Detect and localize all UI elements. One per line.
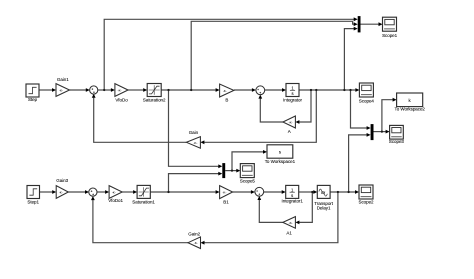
svg-text:s: s [279, 150, 281, 155]
svg-text:s: s [291, 91, 293, 96]
svg-text:Step: Step [28, 97, 38, 102]
svg-text:-K-: -K- [223, 89, 227, 93]
svg-text:A: A [288, 129, 291, 134]
svg-text:Integrator1: Integrator1 [282, 199, 304, 204]
svg-text:Scope3: Scope3 [389, 139, 405, 144]
svg-text:s: s [291, 193, 293, 198]
svg-text:-K-: -K- [59, 191, 63, 195]
svg-text:Scope5: Scope5 [240, 179, 256, 184]
svg-text:Delay1: Delay1 [317, 205, 331, 210]
svg-text:-K-: -K- [222, 191, 226, 195]
svg-text:VfoDo: VfoDo [115, 97, 128, 102]
svg-text:-K-: -K- [194, 241, 198, 245]
svg-text:-K-: -K- [193, 141, 197, 145]
svg-text:-K-: -K- [289, 221, 293, 225]
svg-text:Gain1: Gain1 [57, 77, 69, 82]
svg-text:Saturation1: Saturation1 [132, 200, 155, 205]
svg-text:Gain2: Gain2 [188, 232, 200, 237]
svg-text:Scope2: Scope2 [358, 200, 374, 205]
svg-text:To Workspace2: To Workspace2 [394, 106, 425, 111]
svg-text:Scope1: Scope1 [382, 33, 398, 38]
svg-text:Gain: Gain [189, 130, 199, 135]
svg-text:Scope4: Scope4 [359, 99, 375, 104]
svg-text:Saturation2: Saturation2 [143, 97, 166, 102]
svg-text:Step1: Step1 [27, 200, 39, 205]
svg-text:B: B [225, 98, 228, 103]
svg-text:A1: A1 [286, 231, 292, 236]
svg-text:-K-: -K- [118, 89, 122, 93]
svg-text:-K-: -K- [112, 191, 116, 195]
svg-text:Gain3: Gain3 [56, 178, 68, 183]
svg-text:To Workspace1: To Workspace1 [265, 159, 296, 164]
svg-text:Integrator: Integrator [283, 97, 302, 102]
svg-text:-K-: -K- [59, 89, 63, 93]
svg-text:B1: B1 [223, 200, 229, 205]
svg-text:VfoDo1: VfoDo1 [108, 198, 123, 203]
svg-text:-K-: -K- [289, 121, 293, 125]
